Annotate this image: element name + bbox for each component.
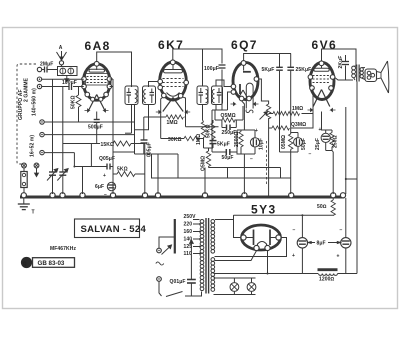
svg-text:50KΩ: 50KΩ <box>206 124 212 138</box>
svg-text:2KμF: 2KμF <box>338 56 344 69</box>
capacitor Q05uF <box>74 79 134 194</box>
output transformer OT <box>352 65 365 82</box>
resistor 1M vertical <box>196 120 206 148</box>
svg-text:110: 110 <box>184 251 192 257</box>
antenna coil box <box>58 67 78 83</box>
capacitor 2MpF antenna <box>37 62 57 73</box>
svg-text:140÷560 m): 140÷560 m) <box>32 88 38 116</box>
pilot lamp 1 <box>230 283 239 292</box>
wire lamp rail bottom <box>214 294 256 296</box>
svg-text:2500Ω: 2500Ω <box>234 131 240 147</box>
wire osc vertical x134.5 <box>134 105 136 155</box>
pilot lamp 2 <box>247 283 256 292</box>
svg-text:100μF: 100μF <box>204 66 219 72</box>
label 8uF with arrows <box>308 241 341 247</box>
wire IFT2 primary top <box>202 49 204 87</box>
svg-text:8μF: 8μF <box>317 241 326 247</box>
svg-text:50KΩ: 50KΩ <box>71 95 77 109</box>
resistor 05M vertical right <box>280 128 299 194</box>
dashed box GRUPPO AF <box>17 64 36 164</box>
IF transformer IFT2 <box>197 86 223 105</box>
svg-text:25KμF: 25KμF <box>296 67 312 73</box>
IF transformer IFT1 <box>125 86 156 105</box>
svg-text:6Q7: 6Q7 <box>231 38 258 52</box>
capacitor 100uF AVC <box>62 80 77 90</box>
svg-text:50Ω: 50Ω <box>317 204 327 210</box>
wire x82.5 to bus <box>82 167 84 195</box>
wire 6A8 right electrodes down <box>110 86 113 88</box>
capacitor 500uF cathode 6A8 <box>88 112 103 144</box>
variable capacitor tuning gang 2 <box>57 87 68 195</box>
svg-text:g: g <box>23 261 27 267</box>
capacitor 50uF electrolytic <box>291 133 307 153</box>
svg-text:−: − <box>250 157 253 163</box>
wire 6Q7 plate top line <box>244 54 291 61</box>
svg-text:6A8: 6A8 <box>85 39 111 53</box>
svg-text:50μF: 50μF <box>301 138 307 150</box>
svg-text:−: − <box>104 192 107 198</box>
variable capacitor tuning gang 1 <box>47 79 58 194</box>
wire horizontal y154 <box>135 153 179 155</box>
tube 6A8 <box>82 61 112 112</box>
capacitor 5KpF IF bypass <box>210 138 230 148</box>
capacitor 8uF first <box>292 214 308 273</box>
loudspeaker <box>365 61 389 93</box>
wire 5Y3 filament bottom right <box>267 251 269 274</box>
svg-text:6V6: 6V6 <box>312 38 338 52</box>
wire 6A8 plate to IFT1 <box>97 52 132 87</box>
svg-text:50μF: 50μF <box>222 155 234 161</box>
capacitor 8uF second <box>337 198 351 274</box>
wire 6V6 plate to output transformer <box>335 78 353 81</box>
nameplate SALVAN - 524 <box>75 219 147 238</box>
resistor 250 ohm 6V6 cathode <box>322 112 339 151</box>
svg-text:15KΩ: 15KΩ <box>101 142 115 148</box>
svg-text:GB 83-03: GB 83-03 <box>38 260 65 267</box>
capacitor 2KpF <box>338 55 349 80</box>
wire IFT1 secondary to 6K7 grid <box>149 82 158 88</box>
tube 6V6 <box>308 61 336 112</box>
svg-text:+: + <box>337 254 340 260</box>
arrow selector wiper <box>162 247 171 255</box>
svg-text:Q01μF: Q01μF <box>170 279 186 285</box>
wire mains input <box>156 237 175 281</box>
capacitor Q01uF line filter <box>170 240 196 296</box>
capacitor 50uF <box>212 148 237 161</box>
svg-text:1200Ω: 1200Ω <box>319 277 335 283</box>
resistor Q5M diode load <box>215 106 243 122</box>
tube 5Y3 rectifier <box>241 225 281 251</box>
terminal row left <box>37 77 44 155</box>
svg-text:Q5MΩ: Q5MΩ <box>201 156 207 171</box>
resistor 1M 6K7 cathode <box>144 97 186 127</box>
wire 6V6 cathode to bus <box>332 151 333 195</box>
svg-text:A: A <box>59 45 63 51</box>
svg-text:250Ω: 250Ω <box>333 135 339 148</box>
wire third gang row down <box>73 153 75 167</box>
svg-text:6K7: 6K7 <box>158 38 184 52</box>
wire lamp rail top <box>214 277 256 279</box>
svg-text:−: − <box>309 152 312 158</box>
capacitor 250uF <box>222 120 237 136</box>
potentiometer 1M volume <box>259 79 271 196</box>
svg-text:10μF: 10μF <box>259 138 265 150</box>
capacitor 25uF electrolytic 6V6 cathode <box>309 127 331 158</box>
svg-text:−: − <box>340 228 343 234</box>
svg-text:160: 160 <box>184 229 193 235</box>
field coil 1200 ohm <box>302 270 357 283</box>
svg-text:25μF: 25μF <box>315 138 321 150</box>
svg-text:220: 220 <box>184 222 193 228</box>
tube 6Q7 <box>231 61 259 114</box>
svg-text:−: − <box>293 228 296 234</box>
switch mains <box>159 281 202 296</box>
svg-text:1MΩ: 1MΩ <box>292 106 303 112</box>
wire B+ line <box>234 214 335 216</box>
svg-text:5KμF: 5KμF <box>262 67 275 73</box>
resistor 1M grid horizontal <box>269 106 313 116</box>
svg-text:5Y3: 5Y3 <box>251 203 277 217</box>
svg-text:T: T <box>32 210 35 216</box>
wire IFT1 primary bottom <box>131 105 133 134</box>
svg-text:6μF: 6μF <box>95 184 104 190</box>
wire 6V6 plate top line <box>322 49 357 66</box>
capacitor 100uF coupling <box>204 65 226 110</box>
capacitor 10uF electrolytic <box>250 128 265 163</box>
wire HV secondary top to 5Y3 <box>215 215 234 219</box>
svg-text:500μF: 500μF <box>88 125 103 131</box>
wire 5Y3 filament bottom left <box>215 251 257 261</box>
wire x158 down <box>157 154 159 194</box>
svg-text:1MΩ: 1MΩ <box>167 120 178 126</box>
fuse holder <box>21 168 27 193</box>
wire IFT1 secondary bottom <box>135 105 149 130</box>
dashed pot shaft link <box>266 141 268 186</box>
wire y180 right <box>152 154 291 178</box>
wire IFT2 secondary bottom jog <box>215 105 217 111</box>
svg-text:5KμF: 5KμF <box>217 142 230 148</box>
wire 5Y3 cathode right <box>215 238 287 257</box>
svg-text:16÷52 m): 16÷52 m) <box>30 135 36 157</box>
main ground bus <box>20 193 346 198</box>
wire IFT2 secondary to 6Q7 grid <box>216 80 231 87</box>
capacitor 5KpF <box>262 54 283 129</box>
wire speaker field line down right <box>356 82 358 274</box>
resistor 50K vertical <box>204 120 216 148</box>
resistor 50 ohm hum <box>317 198 335 216</box>
tube 6K7 <box>156 60 190 114</box>
power transformer <box>175 214 201 257</box>
svg-text:2 GAMME: 2 GAMME <box>24 77 30 102</box>
terminal pair with ground left bottom <box>22 163 39 176</box>
svg-text:+: + <box>103 173 106 179</box>
capacitor 005uF osc <box>141 117 153 157</box>
wire 5Y3 anode left <box>234 215 241 237</box>
resistor 2500 ohm 6Q7 cathode <box>234 130 255 155</box>
capacitor 25KpF <box>287 54 311 135</box>
resistor 5K <box>113 144 145 195</box>
resistor 30K <box>161 117 204 143</box>
logo badge GB 83-03 <box>21 257 75 268</box>
antenna A <box>57 45 67 67</box>
wire 6Q7 cathode to bus <box>242 101 245 130</box>
resistor 05M vertical AVC <box>201 148 281 194</box>
transformer core <box>205 218 207 294</box>
transformer primary winding <box>200 219 204 290</box>
svg-text:1MΩ: 1MΩ <box>196 134 202 145</box>
wire terminal rows <box>42 78 84 80</box>
resistor 15K <box>63 141 145 148</box>
svg-text:MF467KHz: MF467KHz <box>50 246 76 252</box>
svg-text:Q3MΩ: Q3MΩ <box>291 122 306 128</box>
resistor Q3M grid 6V6 <box>269 89 313 131</box>
wire y126.7 screen line <box>186 126 219 128</box>
resistor 50K grid <box>71 87 82 123</box>
wire B+ filament line <box>214 273 303 275</box>
svg-text:30KΩ: 30KΩ <box>168 137 182 143</box>
wire IFT2 primary bottom <box>202 105 204 121</box>
svg-text:05MΩ: 05MΩ <box>281 135 287 149</box>
ground T <box>18 198 35 216</box>
transformer secondary winding <box>211 219 215 291</box>
capacitor 6uF electrolytic <box>95 173 116 198</box>
svg-text:SALVAN - 524: SALVAN - 524 <box>81 224 147 235</box>
wire 6K7 plate top line <box>173 49 222 64</box>
wire heater line right <box>345 107 347 194</box>
svg-text:+: + <box>292 253 295 259</box>
